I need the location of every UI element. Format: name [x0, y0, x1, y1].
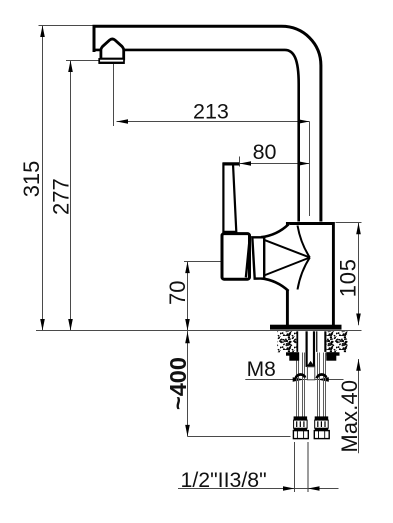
svg-text:277: 277 — [48, 178, 73, 215]
svg-text:70: 70 — [165, 281, 190, 305]
svg-text:213: 213 — [193, 99, 229, 123]
svg-text:M8: M8 — [247, 358, 276, 381]
svg-text:105: 105 — [336, 258, 361, 297]
svg-text:Max.40: Max.40 — [337, 380, 362, 453]
svg-text:80: 80 — [253, 140, 277, 164]
svg-text:1/2"II3/8": 1/2"II3/8" — [181, 468, 267, 492]
svg-text:315: 315 — [19, 161, 44, 198]
svg-text:~400: ~400 — [165, 357, 191, 410]
